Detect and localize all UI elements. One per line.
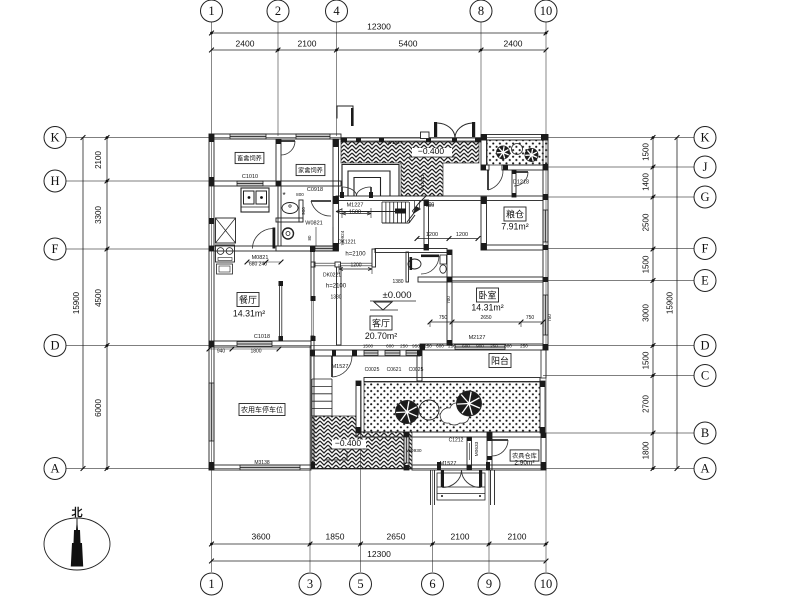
svg-text:1200: 1200 xyxy=(426,232,438,238)
wall pier 15 xyxy=(541,134,548,140)
svg-text:15900: 15900 xyxy=(72,291,81,314)
wall pier 29 xyxy=(424,200,429,206)
svg-text:C0025: C0025 xyxy=(365,367,380,373)
wall pier 56 xyxy=(481,165,486,170)
tree dark top-right b xyxy=(525,149,538,162)
svg-text:−0.400: −0.400 xyxy=(335,438,362,448)
svg-text:H: H xyxy=(50,174,59,188)
svg-text:3: 3 xyxy=(307,577,313,591)
svg-text:h=2100: h=2100 xyxy=(345,252,366,258)
corridor opening DK0221 lines xyxy=(315,262,335,264)
svg-text:M1527: M1527 xyxy=(332,364,349,370)
wall pier 30 xyxy=(424,244,429,250)
svg-text:4: 4 xyxy=(333,4,340,18)
svg-text:北: 北 xyxy=(72,505,83,519)
axis bubble F right xyxy=(694,238,716,260)
axis bubble D left xyxy=(44,335,66,357)
wall pier 35 xyxy=(311,462,315,469)
axis bubble 1 bottom xyxy=(201,573,223,595)
axis line K horizontal xyxy=(66,137,694,139)
tool store west wall xyxy=(487,432,492,470)
wall pier 51 xyxy=(276,139,281,144)
svg-text:9: 9 xyxy=(486,577,492,591)
wall pier 53 xyxy=(447,250,452,255)
hall interior dim line xyxy=(417,238,478,240)
bath2 south wall xyxy=(418,277,449,282)
svg-text:750: 750 xyxy=(547,314,552,322)
axis line 4 vertical xyxy=(336,22,338,136)
svg-text:940: 940 xyxy=(217,349,226,355)
bath1 inner wall horizontal xyxy=(276,218,303,222)
axis bubble E right xyxy=(694,270,716,292)
window C1018 in dining south wall xyxy=(237,342,272,347)
svg-text:2100: 2100 xyxy=(508,532,527,542)
svg-text:1500: 1500 xyxy=(642,351,651,369)
svg-text:粮仓: 粮仓 xyxy=(506,208,524,219)
window in north wall right room xyxy=(296,134,330,139)
svg-text:C0621: C0621 xyxy=(387,367,402,373)
bath2 toilet xyxy=(440,255,447,264)
dining east corridor wall upper xyxy=(311,250,314,300)
wall pier 8 xyxy=(341,138,347,142)
living south wall (axis D) xyxy=(311,350,420,356)
svg-text:6000: 6000 xyxy=(94,399,103,417)
svg-text:1: 1 xyxy=(208,577,214,591)
M1227 dim line xyxy=(342,213,371,215)
bedroom south wall (axis D) xyxy=(420,344,543,350)
svg-text:600: 600 xyxy=(504,344,512,349)
svg-text:2400: 2400 xyxy=(504,39,523,49)
room label toolstore xyxy=(510,450,539,461)
svg-text:M2127: M2127 xyxy=(469,335,486,341)
axis bubble B right xyxy=(694,422,716,444)
wall pier 1 xyxy=(209,177,214,186)
axis line H horizontal xyxy=(66,180,211,182)
axis line J horizontal xyxy=(548,166,694,168)
svg-text:1400: 1400 xyxy=(642,173,651,191)
wall pier 55 xyxy=(512,193,516,197)
outer wall east lower xyxy=(541,433,546,470)
svg-text:畜禽饲养: 畜禽饲养 xyxy=(237,154,262,162)
room label living xyxy=(370,316,392,330)
entry west wall xyxy=(404,432,409,470)
kitchen door dim line xyxy=(247,261,281,263)
door bath1 xyxy=(311,200,331,202)
room label dining xyxy=(237,293,259,307)
svg-text:C1212: C1212 xyxy=(449,438,464,444)
wall pier 22 xyxy=(540,427,545,433)
svg-text:250: 250 xyxy=(448,344,456,349)
svg-text:8: 8 xyxy=(478,4,484,18)
wall pier 16 xyxy=(543,164,548,170)
room label bedroom xyxy=(477,288,499,302)
grain store west wall xyxy=(481,197,487,250)
svg-text:卧室: 卧室 xyxy=(478,289,496,300)
ramp spiral rectangles below terrace xyxy=(342,165,399,197)
svg-text:1200: 1200 xyxy=(456,232,468,238)
svg-text:1500: 1500 xyxy=(642,143,651,161)
small box on north wall xyxy=(421,132,430,139)
svg-text:DK0221: DK0221 xyxy=(323,273,341,279)
axis bubble 10 bottom xyxy=(535,573,557,595)
svg-text:2650: 2650 xyxy=(387,532,406,542)
entry steps side rail east xyxy=(490,470,492,505)
wall pier 34 xyxy=(310,350,315,356)
svg-text:农用车停车位: 农用车停车位 xyxy=(241,405,283,414)
axis bubble K left xyxy=(44,127,66,149)
svg-text:1850: 1850 xyxy=(326,532,345,542)
bath2 washbasin xyxy=(408,259,421,269)
parking east wall xyxy=(311,336,314,465)
svg-text:900: 900 xyxy=(476,344,484,349)
wall pier 4 xyxy=(209,462,214,470)
axis bubble A left xyxy=(44,458,66,480)
svg-text:客厅: 客厅 xyxy=(372,317,390,328)
svg-text:−0.400: −0.400 xyxy=(418,146,445,156)
window/door M3138 band in south wall xyxy=(240,465,300,470)
wall pier 17 xyxy=(543,194,548,200)
balcony west wall xyxy=(417,350,422,381)
hall west wall xyxy=(424,200,429,250)
svg-text:2100: 2100 xyxy=(94,151,103,169)
herringbone porch bottom (-0.400) xyxy=(312,416,412,469)
door tool store xyxy=(492,439,508,441)
kitchen counter small appliance xyxy=(217,264,233,274)
outer wall north (left block) xyxy=(209,134,341,139)
svg-text:阳台: 阳台 xyxy=(491,355,509,366)
window right wall bedroom xyxy=(543,295,548,335)
wall pier 49 xyxy=(356,381,361,386)
svg-text:W0930: W0930 xyxy=(406,448,422,454)
axis bubble 2 top xyxy=(267,0,289,22)
wall pier 43 xyxy=(404,465,409,470)
svg-text:F: F xyxy=(52,242,59,256)
svg-text:700: 700 xyxy=(446,296,451,304)
svg-text:6: 6 xyxy=(429,577,435,591)
wall pier 47 xyxy=(467,437,472,441)
axis line D horizontal xyxy=(66,345,694,347)
window west wall parking xyxy=(209,383,214,441)
window M0633 in entry inner wall xyxy=(469,443,471,460)
axis line B horizontal xyxy=(543,432,694,434)
bedroom interior dim line xyxy=(430,321,543,323)
bath1 west wall xyxy=(278,186,281,246)
window in north wall left room xyxy=(230,134,266,139)
entry steps side rail west xyxy=(430,470,432,505)
dining partition screen xyxy=(279,283,281,341)
wall south of breeding rooms xyxy=(209,181,341,186)
svg-text:600: 600 xyxy=(386,344,394,349)
wall pier 40 xyxy=(437,462,441,470)
svg-text:F: F xyxy=(702,242,709,256)
dotted roof terrace top-right xyxy=(487,140,548,165)
svg-text:M3138: M3138 xyxy=(254,460,270,466)
axis bubble D right xyxy=(694,335,716,357)
wall pier 25 xyxy=(481,197,487,204)
wall pier 10 xyxy=(379,138,384,142)
grain store south wall (axis F) xyxy=(481,245,543,250)
svg-text:M1227: M1227 xyxy=(347,203,364,209)
wall pier 41 xyxy=(486,462,490,470)
W0821 extension line xyxy=(315,227,317,246)
dotted garden terrace bottom xyxy=(364,382,540,432)
room label breeding1 xyxy=(235,152,264,163)
left block south wall (axis F) xyxy=(209,246,336,251)
double door north terrace xyxy=(434,122,437,137)
terrace parapet north xyxy=(341,138,481,142)
stair upper flight treads xyxy=(414,201,416,213)
axis bubble A right xyxy=(694,458,716,480)
svg-text:250: 250 xyxy=(400,344,408,349)
tree dark top-right a xyxy=(497,146,510,159)
door room divider top xyxy=(281,140,295,142)
corridor north wall xyxy=(336,196,543,201)
bedroom north wall xyxy=(447,277,543,282)
kitchen shaft with X xyxy=(216,218,236,243)
window C1010 in divider wall xyxy=(237,181,263,186)
window C0621 xyxy=(385,351,400,356)
window right wall grain store xyxy=(543,210,548,242)
top segment dimension line xyxy=(212,49,547,51)
svg-text:h=2100: h=2100 xyxy=(326,284,347,290)
svg-text:1380: 1380 xyxy=(330,295,341,301)
window W0821 bath south wall xyxy=(315,246,333,251)
bath1 washbasin xyxy=(282,203,298,214)
wall pier 11 xyxy=(426,138,431,142)
svg-text:5400: 5400 xyxy=(399,39,418,49)
svg-text:1: 1 xyxy=(208,4,214,18)
svg-text:250: 250 xyxy=(490,344,498,349)
svg-text:W1527: W1527 xyxy=(387,140,403,146)
porch south edge line xyxy=(311,468,412,470)
axis line E horizontal xyxy=(452,280,694,282)
axis line 1 vertical xyxy=(211,22,213,572)
svg-text:M1527: M1527 xyxy=(440,461,457,467)
stair handrail bar xyxy=(395,209,406,214)
svg-text:M0633: M0633 xyxy=(474,441,480,456)
bottom rooms north wall (axis B) xyxy=(356,432,543,437)
axis line C horizontal xyxy=(543,375,694,377)
level mark -0.400 top xyxy=(412,148,452,157)
room label parking xyxy=(239,404,285,416)
door jambs M1227 xyxy=(340,192,344,198)
tree light garden xyxy=(419,400,439,420)
svg-text:2100: 2100 xyxy=(298,39,317,49)
wall pier 12 xyxy=(452,138,457,142)
wall pier 28 xyxy=(447,340,452,345)
axis bubble 6 bottom xyxy=(422,573,444,595)
svg-text:80: 80 xyxy=(307,235,312,240)
kitchen double sink xyxy=(241,188,269,212)
tree light top-right xyxy=(512,144,523,155)
svg-text:C0025: C0025 xyxy=(409,367,424,373)
axis bubble 1 top xyxy=(201,0,223,22)
svg-text:2.90m²: 2.90m² xyxy=(514,460,535,467)
living west wall xyxy=(337,267,342,345)
level mark -0.400 porch xyxy=(332,440,366,449)
svg-text:14.31m²: 14.31m² xyxy=(471,303,503,313)
svg-text:C: C xyxy=(701,369,709,383)
svg-text:3300: 3300 xyxy=(94,206,103,224)
door bedroom M0927 xyxy=(421,255,439,258)
terrace2 south wall east segment xyxy=(502,165,548,170)
terrace west wall xyxy=(356,381,361,433)
window C0025 b xyxy=(406,351,420,356)
entry east inner wall xyxy=(467,437,472,470)
wall pier 21 xyxy=(540,381,545,387)
bedroom west wall xyxy=(447,250,452,345)
wall pier 18 xyxy=(543,245,548,250)
axis line 10 vertical xyxy=(545,22,547,572)
svg-text:2650: 2650 xyxy=(480,315,491,321)
svg-text:750: 750 xyxy=(439,315,448,321)
svg-text:W0821: W0821 xyxy=(305,221,322,227)
svg-text:1500: 1500 xyxy=(642,255,651,273)
tree dark garden b xyxy=(457,391,482,416)
svg-text:G: G xyxy=(700,190,709,204)
svg-text:950: 950 xyxy=(412,344,420,349)
axis line G horizontal xyxy=(548,196,694,198)
axis bubble 8 top xyxy=(470,0,492,22)
stair break line xyxy=(407,196,426,222)
entry steps outside xyxy=(437,473,485,500)
north arrow ellipse xyxy=(44,518,110,570)
terrace parapet east xyxy=(540,381,545,433)
living north wall stub west xyxy=(311,262,315,267)
wall pier 7 xyxy=(333,243,339,251)
window W0930 entry west wall xyxy=(404,437,409,463)
axis bubble 3 bottom xyxy=(299,573,321,595)
outer wall west xyxy=(209,134,214,470)
axis line 2 vertical xyxy=(277,22,279,136)
svg-text:K: K xyxy=(700,131,709,145)
terrace2 south wall west stub xyxy=(481,165,489,170)
wall pier 26 xyxy=(481,243,487,250)
balcony east wall xyxy=(541,350,546,378)
dining east wall opening lines xyxy=(311,300,313,336)
wall pier 52 xyxy=(276,181,281,186)
door grain store from vestibule xyxy=(487,170,489,190)
svg-text:2: 2 xyxy=(275,4,281,18)
wall pier 46 xyxy=(487,456,492,460)
axis line 8 vertical xyxy=(480,22,482,134)
room label balcony xyxy=(489,354,511,368)
hall south wall east of notch xyxy=(375,249,447,253)
wall pier 54 xyxy=(512,170,516,174)
svg-text:1500: 1500 xyxy=(363,344,374,349)
axis bubble F left xyxy=(44,238,66,260)
dining south wall (axis D) xyxy=(209,341,311,347)
svg-text:800: 800 xyxy=(426,202,435,208)
axis line A horizontal xyxy=(66,468,694,470)
svg-text:K: K xyxy=(50,131,59,145)
wall pier 37 xyxy=(332,350,336,356)
stair direction arrow xyxy=(336,209,397,214)
left overall dim line 15900 xyxy=(82,138,84,469)
svg-text:2700: 2700 xyxy=(642,395,651,413)
wall pier 6 xyxy=(333,196,339,204)
svg-text:3600: 3600 xyxy=(252,532,271,542)
wall pier 39 xyxy=(420,344,425,350)
double door M1227 to terrace xyxy=(341,187,343,196)
axis bubble 9 bottom xyxy=(478,573,500,595)
svg-text:C1018: C1018 xyxy=(254,334,270,340)
svg-text:10: 10 xyxy=(540,577,553,591)
svg-text:M0821: M0821 xyxy=(252,255,269,261)
bath2 west wall xyxy=(406,252,409,282)
svg-text:900: 900 xyxy=(301,207,306,215)
svg-text:C0918: C0918 xyxy=(307,187,323,193)
svg-text:*: * xyxy=(282,191,285,200)
svg-text:14.31m²: 14.31m² xyxy=(233,309,265,319)
svg-text:2500: 2500 xyxy=(642,213,651,231)
vestibule divider wall xyxy=(512,170,516,197)
stair treads main xyxy=(381,202,383,223)
entry double door leaves outside xyxy=(441,470,444,487)
svg-text:A: A xyxy=(50,462,59,476)
axis bubble H left xyxy=(44,170,66,192)
wall pier 0 xyxy=(209,134,214,142)
herringbone terrace top (-0.400) xyxy=(341,141,479,196)
wall pier 48 xyxy=(467,465,472,470)
right overall dim line 15900 xyxy=(676,138,678,469)
room label breeding2 xyxy=(296,164,325,175)
svg-text:1800: 1800 xyxy=(250,349,261,355)
wall pier 9 xyxy=(356,138,361,142)
tree cloud garden xyxy=(440,403,470,425)
wall pier 3 xyxy=(209,341,214,347)
svg-text:E: E xyxy=(701,274,709,288)
axis line 5 vertical xyxy=(360,382,362,572)
svg-text:15900: 15900 xyxy=(666,291,675,314)
axis line 9 vertical xyxy=(488,470,490,572)
bottom segment dim line xyxy=(212,543,547,545)
axis bubble J right xyxy=(694,156,716,178)
axis bubble 5 bottom xyxy=(350,573,372,595)
tree dark garden a xyxy=(396,401,419,424)
DK1221 dim line xyxy=(339,268,372,270)
axis bubble 10 top xyxy=(535,0,557,22)
wall pier 23 xyxy=(541,433,546,438)
svg-text:1500: 1500 xyxy=(349,210,361,216)
svg-text:A: A xyxy=(700,462,709,476)
svg-text:800: 800 xyxy=(296,192,304,197)
svg-text:C1010: C1010 xyxy=(242,174,258,180)
wall pier 27 xyxy=(447,277,452,282)
wall pier 57 xyxy=(503,165,508,170)
terrace2 west wall xyxy=(481,140,487,165)
interior steps to porch xyxy=(312,378,332,380)
window C0025 a xyxy=(364,351,378,356)
wall pier 13 xyxy=(475,138,481,142)
axis bubble 4 top xyxy=(326,0,348,22)
wall east of left block xyxy=(333,139,339,251)
axis line F horizontal xyxy=(66,248,214,250)
svg-text:10: 10 xyxy=(540,4,553,18)
axis line 6 vertical xyxy=(432,470,434,572)
svg-text:W0924: W0924 xyxy=(340,230,345,245)
kitchen stove xyxy=(216,245,235,262)
wall pier 50 xyxy=(356,427,361,433)
svg-text:5: 5 xyxy=(357,577,363,591)
svg-text:2400: 2400 xyxy=(236,39,255,49)
svg-text:250: 250 xyxy=(520,344,528,349)
outer wall south west segment xyxy=(209,465,311,470)
wall pier 45 xyxy=(487,437,492,441)
svg-text:D: D xyxy=(700,339,709,353)
dining dim line below xyxy=(209,348,279,350)
svg-text:家禽饲养: 家禽饲养 xyxy=(298,166,323,174)
